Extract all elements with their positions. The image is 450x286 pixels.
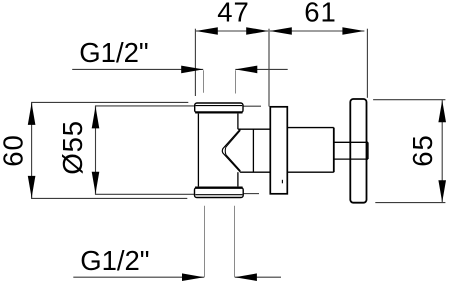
leader line G1/2 top: [72, 68, 203, 70]
extension line 65 top: [373, 99, 445, 101]
arrow 60 up: [28, 103, 36, 125]
arrow 60 down: [28, 176, 36, 198]
thread extension line bottom right (grey): [234, 206, 236, 278]
flange tick: [281, 180, 283, 184]
extension stub right bottom: [243, 193, 259, 195]
arrow G1/2 bottom pointing right: [182, 273, 204, 281]
dimension line 55: [95, 106, 97, 194]
dimension line 61: [270, 30, 365, 32]
leader line G1/2 bottom: [73, 276, 204, 278]
stem right cap: [367, 142, 369, 159]
svg-text:65: 65: [407, 134, 438, 167]
arrow 47 right: [246, 27, 268, 35]
handle: [350, 99, 366, 203]
extension line 60 top: [32, 102, 189, 124]
top fitting: [195, 103, 243, 113]
arrow 65 down: [438, 180, 446, 202]
stem bottom line: [334, 158, 368, 160]
arrow G1/2 top pointing left: [235, 66, 257, 74]
counter line G1/2 top: [235, 68, 287, 70]
thread extension line top left (grey): [203, 70, 205, 93]
arrow 55 down: [92, 172, 100, 194]
extension line 60 bottom: [32, 177, 188, 198]
arrow 55 up: [92, 106, 100, 128]
extension line 61 right: [366, 29, 368, 98]
thread extension line top right (grey): [235, 70, 237, 93]
svg-text:60: 60: [0, 134, 29, 167]
stem top line: [334, 141, 368, 143]
valve cone outline outer: [222, 129, 240, 173]
neck top line: [238, 128, 270, 130]
counter line G1/2 bottom: [235, 276, 281, 278]
body bottom line: [287, 171, 334, 173]
dimension line 60: [31, 102, 33, 198]
pipe right edge upper: [237, 114, 239, 130]
extension stub right top: [243, 105, 261, 107]
wall flange: [270, 107, 287, 194]
arrow 61 left: [270, 27, 292, 35]
svg-text:61: 61: [304, 0, 337, 28]
arrow 61 right: [342, 27, 364, 35]
valve cone outline inner: [225, 130, 240, 171]
svg-text:Ø55: Ø55: [57, 120, 88, 174]
svg-text:47: 47: [217, 0, 250, 28]
extension line 55 bottom: [96, 172, 195, 194]
arrow 65 up: [438, 100, 446, 122]
extension line 65 bottom: [375, 202, 445, 204]
extension line 47/61 junction: [268, 29, 270, 107]
body top line: [287, 127, 334, 129]
bottom fitting: [195, 188, 244, 198]
neck bottom line: [240, 171, 270, 173]
svg-text:G1/2": G1/2": [79, 37, 148, 68]
svg-text:G1/2": G1/2": [80, 245, 149, 276]
thread extension line bottom left (grey): [204, 206, 206, 278]
arrow G1/2 top pointing right: [181, 66, 203, 74]
extension line 55 top: [96, 106, 195, 128]
neck seam: [252, 129, 254, 172]
pipe right edge lower: [237, 172, 239, 186]
pipe left edge: [197, 114, 199, 187]
arrow 47 left: [196, 27, 218, 35]
body right edge: [333, 128, 335, 173]
extension line 47 left: [194, 29, 196, 96]
arrow G1/2 bottom pointing left: [235, 273, 257, 281]
dimension line 65: [441, 100, 443, 202]
dimension line 47: [196, 30, 268, 32]
